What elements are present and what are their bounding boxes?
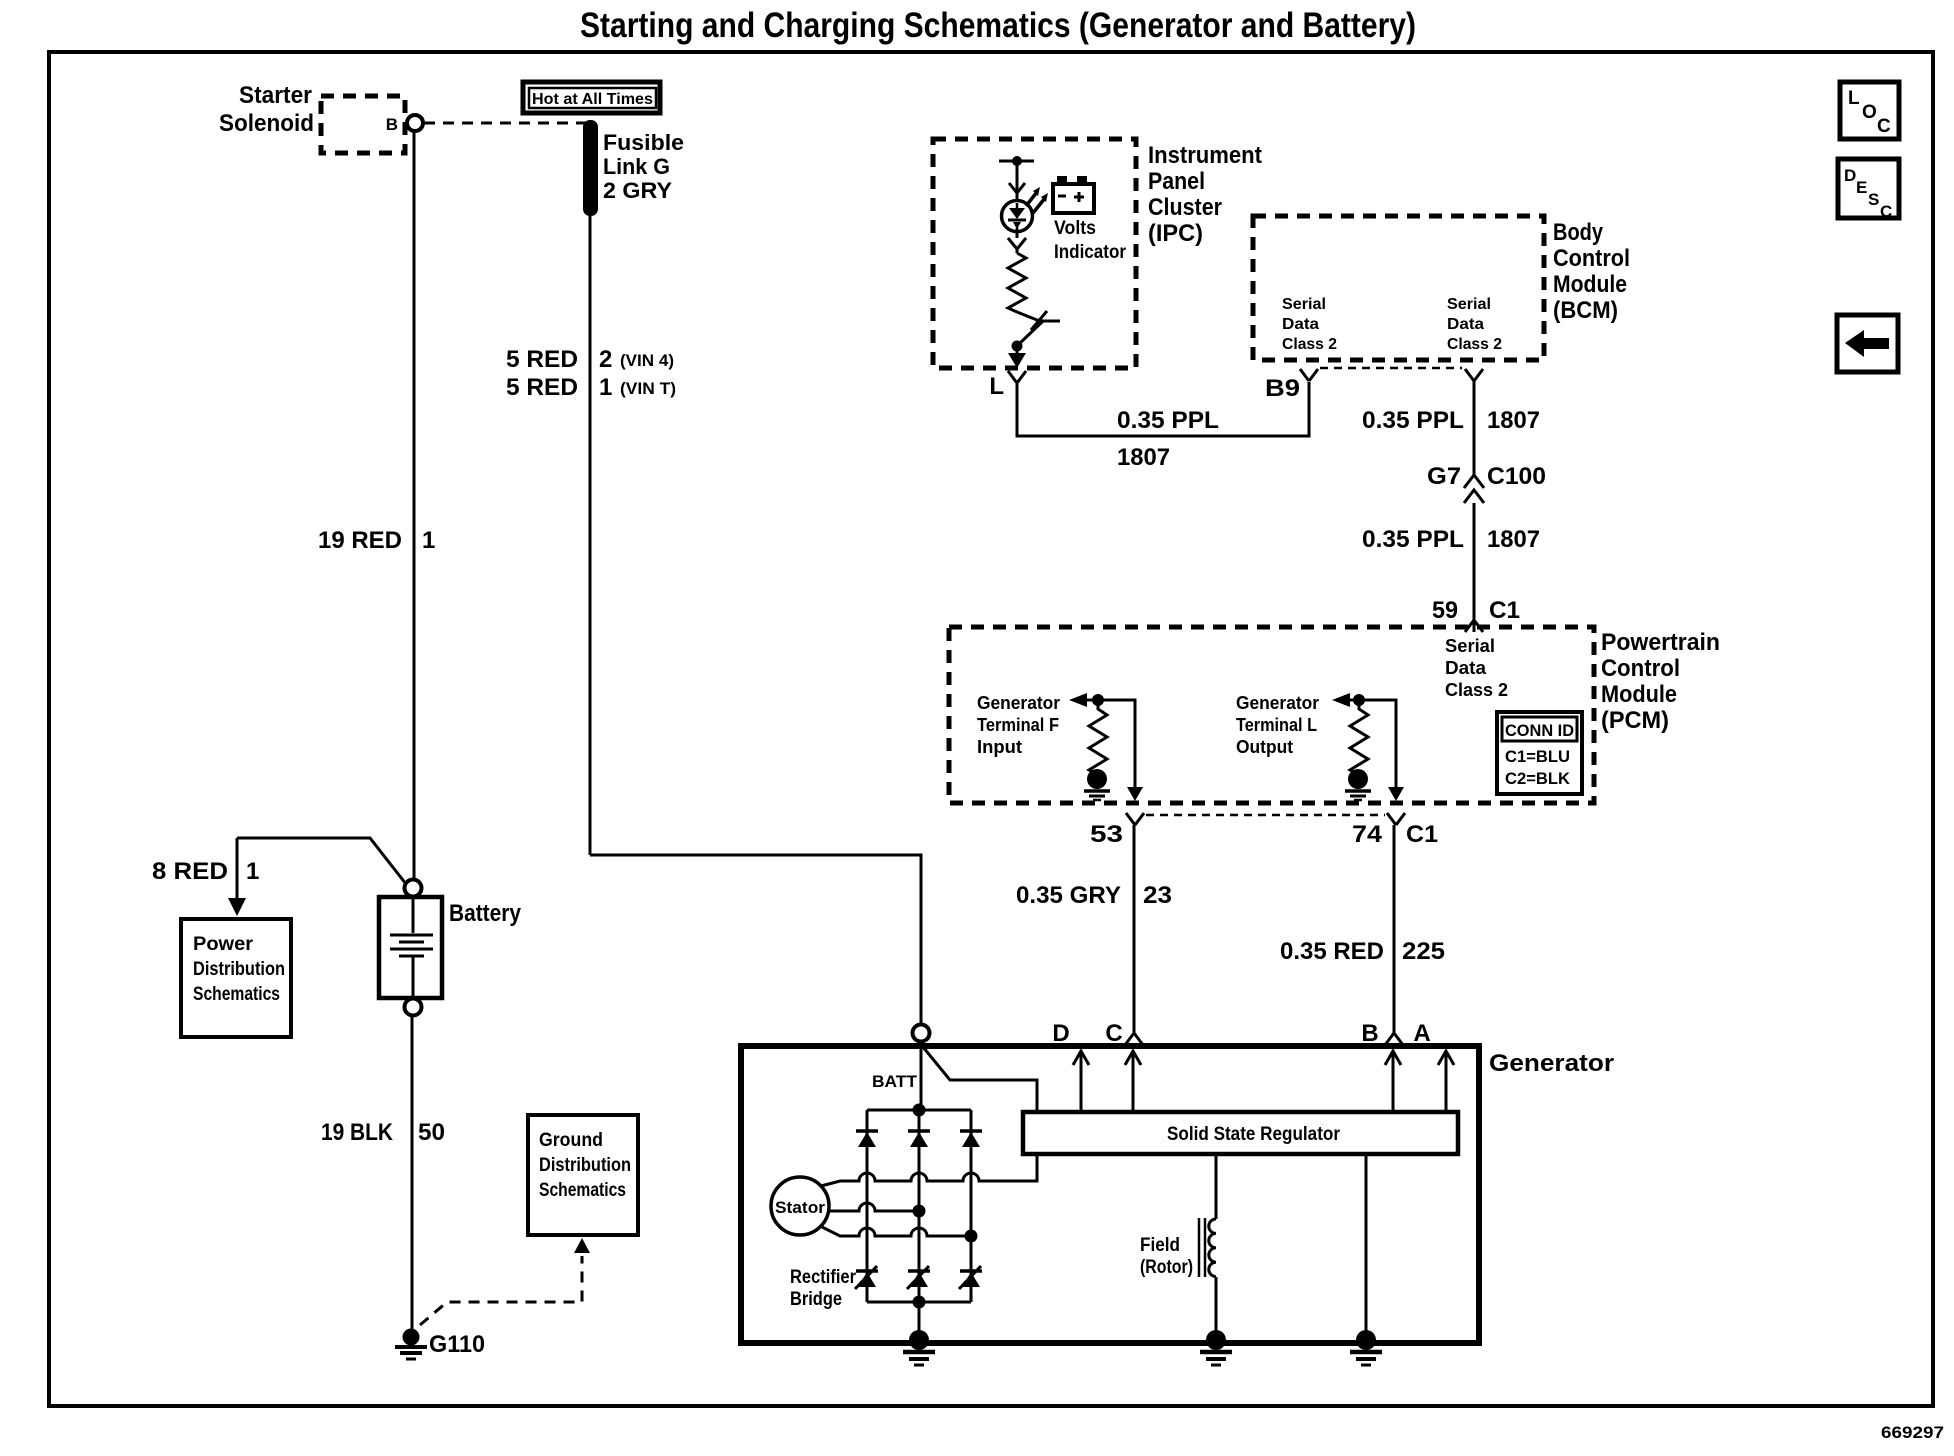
svg-text:Data: Data (1447, 316, 1484, 333)
wire 8 RED branch (237, 838, 406, 884)
gauge resistor (1008, 253, 1026, 312)
svg-text:G110: G110 (429, 1331, 485, 1358)
pin 74 connector cup (1387, 813, 1405, 825)
generator terminal L output label (1236, 693, 1319, 757)
BCM right terminal cup (1465, 369, 1483, 381)
svg-text:E: E (1856, 178, 1867, 197)
svg-text:Instrument: Instrument (1148, 142, 1262, 169)
svg-text:Starting and Charging Schemati: Starting and Charging Schematics (Genera… (580, 6, 1416, 45)
arrow down to pin 53 (1127, 787, 1143, 801)
svg-text:5 RED: 5 RED (506, 374, 578, 401)
svg-text:(VIN T): (VIN T) (620, 379, 676, 398)
svg-text:L: L (989, 373, 1004, 400)
svg-text:L: L (1848, 88, 1860, 109)
wire 0.35 GRY pin 53 to generator C (1133, 825, 1136, 1033)
svg-text:CONN ID: CONN ID (1505, 721, 1574, 740)
IPC supply bar (999, 160, 1034, 163)
svg-text:Solenoid: Solenoid (219, 110, 314, 137)
svg-text:(PCM): (PCM) (1601, 707, 1669, 734)
svg-text:Data: Data (1445, 658, 1487, 678)
terminal B9 connector cup (1300, 369, 1318, 381)
svg-text:C: C (1877, 116, 1891, 137)
terminal L connector cup (1008, 371, 1026, 383)
bridge ground (903, 1330, 935, 1365)
wire 5 RED horizontal to generator (590, 855, 921, 1025)
wire down from bar (1016, 161, 1019, 199)
svg-text:O: O (1862, 102, 1877, 123)
svg-text:C: C (1105, 1020, 1122, 1047)
terminal L internal wire (1348, 700, 1396, 789)
generator C connector cup (1125, 1033, 1143, 1045)
svg-text:2: 2 (599, 346, 612, 373)
svg-text:Link G: Link G (603, 154, 670, 179)
DESC icon box (1838, 159, 1899, 221)
power distribution schematics box (181, 919, 291, 1037)
stator (771, 1177, 829, 1235)
svg-text:Output: Output (1236, 737, 1293, 757)
svg-text:Generator: Generator (977, 693, 1060, 713)
stator phase wire bottom (822, 1227, 971, 1236)
svg-text:0.35 PPL: 0.35 PPL (1362, 526, 1464, 553)
wire 19 BLK (411, 1016, 414, 1331)
svg-text:5 RED: 5 RED (506, 346, 578, 373)
CONN ID box (1497, 712, 1582, 794)
svg-text:Distribution: Distribution (193, 959, 285, 980)
svg-text:53: 53 (1090, 821, 1123, 848)
svg-text:Generator: Generator (1236, 693, 1319, 713)
pin 53 connector cup (1126, 813, 1144, 825)
internal terminal B arrow wire (1392, 1053, 1395, 1112)
terminal 59 connector cup (1465, 620, 1483, 632)
generator box (741, 1046, 1479, 1343)
dashed wire ground to ground distribution (420, 1256, 582, 1325)
svg-text:C2=BLK: C2=BLK (1505, 769, 1571, 788)
rectifier bridge frame (867, 1110, 971, 1302)
junction dot F (1092, 694, 1104, 706)
svg-text:8 RED: 8 RED (152, 858, 228, 885)
svg-text:(VIN 4): (VIN 4) (620, 351, 674, 370)
junction dot bottom phase (965, 1230, 978, 1243)
serial data class 2 label right (1447, 296, 1502, 353)
diode top middle (908, 1131, 930, 1147)
wire 0.35 RED pin 74 to generator B (1393, 825, 1396, 1033)
svg-text:Control: Control (1601, 655, 1680, 682)
battery + terminal node (405, 880, 422, 897)
junction dot middle phase (913, 1205, 926, 1218)
svg-text:19 BLK: 19 BLK (321, 1119, 394, 1146)
svg-text:Class 2: Class 2 (1447, 336, 1502, 353)
diode bottom middle (907, 1266, 930, 1289)
regulator ground (1350, 1330, 1382, 1365)
field ground (1200, 1330, 1232, 1365)
svg-text:B: B (1361, 1020, 1378, 1047)
connector C100 (1464, 475, 1484, 503)
terminal B node (407, 115, 423, 131)
battery (379, 897, 442, 998)
svg-text:B: B (386, 115, 398, 134)
wire lamp to cup (1016, 231, 1019, 238)
svg-text:1807: 1807 (1487, 407, 1540, 434)
internal terminal C arrow wire (1132, 1053, 1135, 1112)
stator phase wire top (821, 1173, 1037, 1186)
terminal F internal wire (1085, 700, 1135, 789)
BCM connector face line (1320, 367, 1462, 370)
regulator ground wire (1365, 1154, 1368, 1338)
svg-text:Panel: Panel (1148, 168, 1205, 195)
svg-text:C1=BLU: C1=BLU (1505, 747, 1570, 766)
internal ground L (1345, 769, 1371, 800)
diode top right (960, 1131, 982, 1147)
terminal L arrow (1332, 693, 1350, 707)
arrow down to pin 74 (1388, 787, 1404, 801)
diode bottom left (855, 1266, 878, 1289)
svg-text:Cluster: Cluster (1148, 194, 1222, 221)
hot at all times tag (523, 82, 660, 113)
battery - terminal node (405, 999, 422, 1016)
generator B connector cup (1385, 1033, 1403, 1045)
fusible link G element (583, 120, 598, 216)
terminal F arrow (1069, 693, 1087, 707)
svg-text:Body: Body (1553, 219, 1604, 246)
back arrow icon box (1837, 315, 1898, 372)
svg-text:BATT: BATT (872, 1072, 918, 1091)
svg-text:50: 50 (418, 1119, 445, 1146)
BATT wire into rectifier (920, 1041, 923, 1110)
svg-text:1: 1 (246, 858, 259, 885)
svg-text:Battery: Battery (449, 900, 522, 927)
svg-text:Starter: Starter (239, 82, 312, 109)
BATT terminal node (913, 1025, 930, 1042)
svg-text:Generator: Generator (1489, 1050, 1614, 1077)
svg-text:Serial: Serial (1282, 296, 1326, 313)
arrow down to L pin (1016, 346, 1019, 355)
svg-text:Bridge: Bridge (790, 1289, 842, 1310)
svg-text:Field: Field (1140, 1235, 1180, 1256)
stator phase wire middle (829, 1203, 919, 1211)
svg-text:23: 23 (1143, 882, 1172, 909)
gauge needle (1017, 312, 1042, 344)
diode bottom right (959, 1266, 982, 1289)
svg-text:74: 74 (1352, 821, 1383, 848)
svg-text:Powertrain: Powertrain (1601, 629, 1720, 656)
svg-text:(IPC): (IPC) (1148, 220, 1203, 247)
svg-text:G7: G7 (1427, 463, 1461, 490)
svg-text:Module: Module (1553, 271, 1627, 298)
svg-text:(Rotor): (Rotor) (1140, 1257, 1193, 1278)
svg-text:669297: 669297 (1881, 1423, 1944, 1442)
volts indicator lamp (LED) (1002, 201, 1033, 232)
junction dot (1012, 341, 1023, 352)
inline cup connector (1008, 238, 1026, 249)
arrow into ground distribution box (574, 1238, 590, 1253)
svg-text:19 RED: 19 RED (318, 527, 402, 554)
svg-text:Serial: Serial (1447, 296, 1491, 313)
svg-text:C: C (1880, 202, 1892, 221)
diode top left (856, 1131, 878, 1147)
svg-text:0.35 PPL: 0.35 PPL (1362, 407, 1464, 434)
svg-text:Module: Module (1601, 681, 1677, 708)
PCM box (949, 627, 1594, 803)
IPC label (1148, 142, 1262, 247)
svg-text:B9: B9 (1265, 375, 1300, 402)
svg-text:1: 1 (599, 374, 612, 401)
svg-text:A: A (1413, 1020, 1430, 1047)
svg-text:59: 59 (1432, 597, 1458, 624)
junction dot L (1353, 694, 1365, 706)
svg-text:Terminal L: Terminal L (1236, 715, 1317, 735)
svg-text:Power: Power (193, 934, 254, 955)
svg-text:Fusible: Fusible (603, 130, 684, 155)
svg-text:225: 225 (1402, 938, 1445, 965)
wire 0.35 PPL BCM to C100 (1473, 381, 1476, 476)
dashed wire B to fusible link (424, 122, 588, 125)
ground G110 (395, 1329, 427, 1360)
svg-text:Ground: Ground (539, 1130, 603, 1151)
serial data class 2 label left (1282, 296, 1337, 353)
PCM connector face line (1146, 814, 1385, 817)
wire 5 RED vertical (589, 213, 592, 855)
svg-text:Control: Control (1553, 245, 1630, 272)
junction dot bridge top (913, 1104, 926, 1117)
BCM label (1553, 219, 1630, 324)
IPC box (933, 139, 1136, 368)
bridge ground wire (918, 1302, 921, 1338)
starter solenoid box (321, 96, 405, 153)
svg-text:D: D (1844, 166, 1856, 185)
svg-text:Rectifier: Rectifier (790, 1267, 857, 1288)
svg-text:C1: C1 (1406, 821, 1438, 848)
LOC icon box (1840, 82, 1899, 139)
svg-text:0.35 PPL: 0.35 PPL (1117, 407, 1219, 434)
svg-text:C100: C100 (1487, 463, 1546, 490)
resistor L (1350, 700, 1368, 775)
regulator phase tap wire (980, 1154, 1037, 1181)
svg-text:Hot at All Times: Hot at All Times (532, 91, 653, 108)
BCM box (1253, 216, 1544, 360)
svg-text:1: 1 (422, 527, 435, 554)
svg-text:Class 2: Class 2 (1282, 336, 1337, 353)
junction dot on bar (1012, 156, 1022, 166)
svg-text:Input: Input (977, 737, 1022, 757)
LED light arrows (1026, 192, 1045, 213)
svg-text:Schematics: Schematics (193, 984, 280, 1005)
open arrow down (1009, 183, 1025, 193)
svg-text:0.35 GRY: 0.35 GRY (1016, 882, 1121, 909)
svg-text:Solid State Regulator: Solid State Regulator (1167, 1124, 1341, 1145)
generator terminal F input label (977, 693, 1060, 757)
svg-text:Serial: Serial (1445, 636, 1495, 656)
PCM label (1601, 629, 1720, 734)
svg-text:Schematics: Schematics (539, 1180, 626, 1201)
battery icon of volts indicator (1053, 176, 1094, 213)
svg-text:Volts: Volts (1054, 218, 1096, 239)
svg-text:1807: 1807 (1487, 526, 1540, 553)
junction dot bridge bottom (913, 1296, 926, 1309)
svg-text:D: D (1052, 1020, 1069, 1047)
resistor F (1089, 700, 1107, 775)
internal ground F (1084, 769, 1110, 800)
wire 0.35 PPL C100 to PCM (1473, 503, 1476, 632)
svg-text:2 GRY: 2 GRY (603, 178, 672, 203)
serial data class 2 label (PCM) (1445, 636, 1508, 700)
svg-text:Stator: Stator (775, 1198, 825, 1217)
BATT wire to regulator (923, 1047, 1037, 1110)
arrow into power distribution box (236, 838, 239, 901)
svg-text:C1: C1 (1489, 597, 1520, 624)
svg-text:(BCM): (BCM) (1553, 297, 1618, 324)
svg-text:Data: Data (1282, 316, 1319, 333)
wire cup to resistor (1016, 249, 1019, 253)
solid state regulator box (1023, 1112, 1458, 1154)
internal terminal A arrow wire (1445, 1053, 1448, 1112)
wire 19 RED (413, 131, 416, 879)
svg-text:Terminal F: Terminal F (977, 715, 1059, 735)
svg-text:0.35 RED: 0.35 RED (1280, 938, 1384, 965)
ground distribution schematics box (528, 1115, 638, 1235)
svg-text:Class 2: Class 2 (1445, 680, 1508, 700)
wire 0.35 PPL IPC to BCM (1017, 382, 1309, 436)
field rotor coil (1199, 1154, 1216, 1338)
svg-text:S: S (1868, 190, 1879, 209)
svg-text:1807: 1807 (1117, 444, 1170, 471)
svg-text:Indicator: Indicator (1054, 242, 1127, 263)
internal terminal D arrow wire (1080, 1053, 1083, 1112)
svg-text:Distribution: Distribution (539, 1155, 631, 1176)
